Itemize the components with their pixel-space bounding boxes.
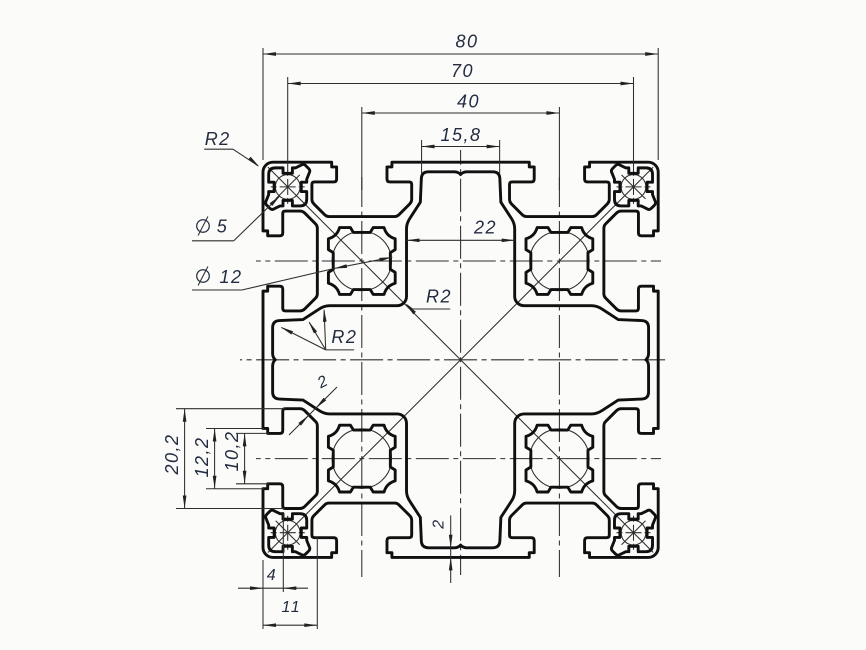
outer profile outline with 8 T-slots [263, 162, 658, 557]
leader wall thickness 2 (bottom face) [450, 515, 452, 583]
dim 40 extension lines [361, 107, 363, 190]
svg-text:10,2: 10,2 [222, 430, 242, 471]
dim 70 [288, 83, 634, 85]
corner screw hole circle at (5,75) [275, 520, 300, 545]
corner hole centerline ticks [271, 186, 305, 188]
dim 11 extension lines [262, 592, 264, 629]
svg-text:12: 12 [219, 267, 242, 287]
svg-text:R2: R2 [331, 327, 357, 347]
column centerline x=20 [361, 177, 363, 577]
svg-text:15,8: 15,8 [440, 125, 481, 145]
corner hole cross tick [622, 521, 646, 545]
corner screw channel at (5,5) [266, 164, 310, 209]
corner screw channel at (75,75) [611, 510, 655, 555]
svg-text:20,2: 20,2 [162, 433, 182, 475]
corner hole centerline ticks [271, 532, 305, 534]
dim 20,2 [184, 409, 186, 509]
diagonal axis TR-BL [268, 167, 653, 552]
corner hole cross tick [276, 175, 300, 199]
svg-text:11: 11 [281, 599, 301, 616]
svg-text:R2: R2 [205, 129, 231, 149]
dim 11 [263, 624, 317, 626]
core bore circle at (20,20) [332, 231, 391, 290]
leader wall thickness 2 (web) [289, 387, 337, 435]
dim 22 [407, 239, 515, 241]
core screw channel at (20,20) [328, 228, 395, 295]
leader R2 triple [326, 349, 354, 351]
dim 20,2 extension lines [176, 408, 285, 410]
leader diameter 5 [192, 240, 234, 242]
core screw channel at (60,20) [526, 228, 593, 295]
diagonal axis TL-BR [268, 167, 653, 552]
svg-text:70: 70 [451, 61, 474, 81]
corner screw hole circle at (75,5) [621, 175, 646, 200]
dim 80 [263, 53, 658, 55]
leader diameter 12 [192, 289, 242, 291]
dim 4 extension lines [262, 560, 264, 592]
row centerline y=20 [256, 260, 661, 262]
row centerline y=60 [256, 458, 661, 460]
corner hole cross tick [276, 521, 300, 545]
svg-text:80: 80 [455, 32, 478, 52]
corner screw channel at (5,75) [266, 510, 310, 555]
dim 4 [238, 587, 308, 589]
corner hole centerline ticks [617, 186, 651, 188]
core bore circle at (20,60) [332, 429, 391, 488]
corner screw channel at (75,5) [611, 164, 655, 209]
dim 10,2 [244, 433, 246, 483]
core bore circle at (60,20) [530, 231, 589, 290]
svg-text:2: 2 [431, 518, 448, 529]
dim 10,2 extension lines [236, 432, 269, 434]
corner screw hole circle at (75,75) [621, 520, 646, 545]
corner hole centerline ticks [617, 532, 651, 534]
column centerline x=60 [558, 177, 560, 577]
svg-text:R2: R2 [426, 287, 452, 307]
dim 15,8 extension lines [421, 140, 423, 174]
dim 12,2 [214, 428, 216, 488]
main horizontal centerline [240, 359, 668, 361]
corner hole cross tick [622, 175, 646, 199]
dim 15,8 [422, 146, 500, 148]
central cavity with four face channels [273, 172, 649, 548]
svg-text:40: 40 [457, 92, 480, 112]
dim 80 extension lines [262, 48, 264, 160]
core bore circle at (60,60) [530, 429, 589, 488]
svg-text:4: 4 [267, 567, 277, 584]
core screw channel at (20,60) [328, 425, 395, 492]
core screw channel at (60,60) [526, 425, 593, 492]
svg-text:5: 5 [217, 217, 229, 237]
main vertical centerline [460, 150, 462, 575]
leader R2 top-left [204, 148, 233, 150]
corner screw hole circle at (5,5) [275, 175, 300, 200]
dim 70 extension lines [287, 77, 289, 171]
svg-text:22: 22 [473, 218, 497, 238]
leader R2 centre [413, 308, 451, 310]
dim 40 [362, 112, 560, 114]
dim 12,2 extension lines [206, 427, 264, 429]
svg-text:12,2: 12,2 [192, 436, 212, 477]
